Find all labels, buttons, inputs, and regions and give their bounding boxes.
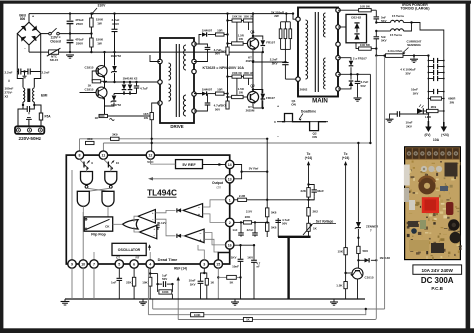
svg-text:1N4752: 1N4752 bbox=[111, 54, 122, 58]
svg-text:22K: 22K bbox=[301, 189, 307, 193]
switch 110V Closed bbox=[41, 33, 49, 35]
svg-text:10nF: 10nF bbox=[232, 265, 239, 269]
svg-text:150K 1W: 150K 1W bbox=[243, 17, 254, 19]
wire pin1 to amp1 bbox=[203, 200, 226, 207]
svg-text:2625M: 2625M bbox=[246, 109, 255, 113]
capacitor 4.7uF 50V top bbox=[194, 44, 208, 47]
wire neg rail bbox=[29, 51, 262, 53]
svg-text:15K: 15K bbox=[338, 250, 344, 254]
transformer EMI bbox=[17, 72, 23, 88]
pin 14 bbox=[226, 160, 234, 168]
svg-text:FR107: FR107 bbox=[266, 40, 275, 44]
wire bridge + to rail bbox=[28, 14, 30, 23]
wire Q1 to Q2 bbox=[252, 49, 254, 92]
svg-text:15: 15 bbox=[216, 263, 220, 267]
svg-text:3: 3 bbox=[203, 263, 205, 267]
svg-text:10: 10 bbox=[116, 161, 120, 165]
svg-text:310V: 310V bbox=[98, 4, 107, 8]
bottom wire y314.7 bbox=[148, 309, 365, 315]
ground symbol left bbox=[61, 301, 70, 303]
gate NAND2 bbox=[105, 172, 117, 185]
connector 220V-50Hz bbox=[15, 126, 44, 134]
wire T2 emitter bbox=[104, 98, 106, 116]
svg-text:Set Voltage: Set Voltage bbox=[316, 219, 334, 223]
wire rail to MAIN top bbox=[286, 14, 288, 20]
error amp 2 bbox=[185, 229, 205, 243]
pin 2 bbox=[226, 218, 234, 226]
resistor 2K2 bbox=[308, 200, 310, 208]
svg-text:6: 6 bbox=[133, 263, 135, 267]
sense wire v2 bbox=[384, 56, 386, 309]
wire deadtime comp input bbox=[149, 252, 152, 260]
svg-text:22K: 22K bbox=[245, 215, 251, 219]
svg-text:Flip Flop: Flip Flop bbox=[91, 233, 106, 237]
pin 9 bbox=[68, 260, 76, 268]
wire drive pri top bbox=[150, 55, 160, 62]
resistor 680R 2W bbox=[431, 97, 442, 100]
wire neg rail drop bbox=[261, 52, 263, 108]
5V REF box bbox=[176, 160, 203, 169]
pin 10 bbox=[79, 260, 87, 268]
wire pin7 stub bbox=[93, 252, 95, 260]
comparator deadtime bbox=[140, 225, 157, 239]
resistor 1K bottom bbox=[243, 318, 252, 322]
capacitor 10nF 1KV pin3 bbox=[203, 268, 205, 273]
svg-text:10R 5W: 10R 5W bbox=[360, 43, 370, 47]
wire T1 collector bbox=[104, 52, 106, 66]
svg-text:#: # bbox=[28, 112, 30, 116]
rectifier DS2-82 bbox=[346, 14, 367, 42]
svg-text:0: 0 bbox=[274, 120, 276, 124]
wire AC line right bbox=[40, 34, 42, 72]
svg-text:2KV: 2KV bbox=[406, 124, 412, 128]
wire mid drive bbox=[104, 77, 106, 83]
wire aux center tap bbox=[338, 73, 351, 75]
wire diode row bottom bbox=[114, 93, 137, 95]
svg-text:+: + bbox=[200, 239, 202, 243]
svg-text:(+24): (+24) bbox=[441, 133, 449, 137]
transistor C1015 bbox=[357, 260, 359, 268]
svg-text:2.5V: 2.5V bbox=[246, 209, 253, 213]
resistor 22K pin6 bbox=[133, 268, 135, 277]
gate AND1 bbox=[77, 191, 89, 206]
IC TL494C box bbox=[66, 155, 229, 264]
ground mid caps bbox=[66, 54, 74, 56]
earth to plug pin2 bbox=[28, 120, 30, 127]
svg-text:−: − bbox=[277, 135, 279, 139]
transistor C1815 top bbox=[96, 66, 107, 77]
wire toroid to +24 rail bbox=[412, 23, 444, 54]
svg-text:FR107: FR107 bbox=[266, 96, 275, 100]
capacitor 1000uF #4 bbox=[428, 78, 433, 80]
capacitor 470uF 250V bottom bbox=[69, 34, 71, 40]
capacitor 1000uF #3 bbox=[428, 72, 433, 74]
svg-text:100K: 100K bbox=[162, 290, 169, 294]
resistor 100K bottom bbox=[191, 313, 204, 317]
svg-text:1: 1 bbox=[229, 198, 231, 202]
svg-text:1K: 1K bbox=[246, 318, 250, 322]
wire 5V REF to pin 14 bbox=[203, 164, 223, 166]
capacitor 5nF 5KV bottom bbox=[375, 31, 377, 36]
resistor 150K 1W bottom bbox=[90, 34, 92, 38]
wire C1015 emitter bbox=[357, 279, 359, 299]
svg-text:9: 9 bbox=[71, 263, 73, 267]
svg-text:Dead Time: Dead Time bbox=[158, 257, 179, 262]
transistor Q2 KT2625M bbox=[247, 91, 258, 102]
pin 12 VCC bbox=[146, 151, 154, 159]
svg-text:1KV: 1KV bbox=[190, 282, 196, 286]
svg-text:806: 806 bbox=[20, 17, 26, 21]
NTC SD-15 bbox=[49, 50, 59, 54]
svg-text:16: 16 bbox=[228, 243, 232, 247]
svg-text:11: 11 bbox=[101, 154, 105, 158]
capacitor 470uF 250V top bbox=[69, 14, 71, 21]
svg-text:4.7uF: 4.7uF bbox=[140, 86, 148, 90]
wire pin9 down bbox=[71, 170, 73, 260]
output transistor pin11 bbox=[103, 159, 108, 164]
capacitor 1000uF #1 bbox=[428, 60, 433, 62]
pin 5 bbox=[115, 260, 123, 268]
svg-text:10R: 10R bbox=[217, 87, 223, 91]
wire comparators to OR bbox=[134, 216, 138, 222]
wire to ground right bbox=[171, 294, 173, 299]
wire y309 left end bbox=[152, 299, 154, 309]
svg-text:1.5K: 1.5K bbox=[336, 284, 343, 288]
svg-text:13: 13 bbox=[228, 177, 232, 181]
wire rail to Q1 bbox=[252, 14, 254, 39]
wire DS2 top bbox=[355, 10, 357, 14]
diode FR107 Q1 bbox=[253, 36, 263, 40]
svg-text:10A: 10A bbox=[433, 138, 440, 142]
svg-text:Q2: Q2 bbox=[250, 84, 254, 88]
wire MAIN to DS2 mid bbox=[338, 26, 346, 28]
svg-text:SENSING: SENSING bbox=[407, 43, 421, 47]
oscillator box bbox=[112, 243, 146, 255]
feedback diode 1 bbox=[177, 208, 181, 212]
comparator PWM bbox=[138, 210, 155, 224]
svg-text:DS2-82: DS2-82 bbox=[351, 15, 361, 19]
pin 8 bbox=[75, 151, 83, 159]
wire C1015 collector bbox=[346, 275, 352, 277]
ground symbol far right bbox=[333, 299, 335, 302]
resistor 150K 1W top bbox=[90, 14, 92, 18]
output arrow +24 bbox=[443, 122, 445, 127]
svg-text:#: # bbox=[8, 79, 10, 83]
svg-text:2KV: 2KV bbox=[272, 62, 278, 66]
svg-text:ON: ON bbox=[312, 135, 317, 139]
resistor 5K6 lower bbox=[266, 217, 268, 223]
pin 6 bbox=[130, 260, 138, 268]
capacitor 10nF pin16 wire bbox=[234, 244, 254, 246]
svg-text:Closed: Closed bbox=[50, 40, 61, 44]
diode 1N4148 bbox=[358, 259, 364, 261]
output arrow 0V bbox=[427, 121, 429, 127]
svg-text:1N4752: 1N4752 bbox=[111, 103, 122, 107]
svg-text:1W: 1W bbox=[97, 41, 102, 45]
output transistor pin8 bbox=[80, 159, 85, 164]
svg-text:2.2R: 2.2R bbox=[239, 194, 246, 198]
svg-text:12: 12 bbox=[148, 154, 152, 158]
svg-text:33nF: 33nF bbox=[317, 189, 324, 193]
svg-text:35V: 35V bbox=[405, 71, 410, 75]
svg-text:50V: 50V bbox=[282, 222, 287, 226]
svg-text:(+24): (+24) bbox=[342, 156, 350, 160]
wire T1 base down bbox=[80, 92, 97, 94]
svg-text:50V: 50V bbox=[215, 107, 220, 111]
capacitor 4.7uF 50V bottom bbox=[194, 93, 208, 95]
wire pin10 down bbox=[82, 212, 84, 260]
PCB photo bbox=[404, 147, 462, 260]
svg-text:10: 10 bbox=[81, 263, 85, 267]
svg-text:2.2nF: 2.2nF bbox=[5, 71, 13, 75]
svg-text:250V: 250V bbox=[76, 41, 84, 45]
wire pin15 to amp2 bbox=[204, 239, 218, 260]
svg-text:1nF: 1nF bbox=[111, 280, 116, 284]
svg-text:5: 5 bbox=[118, 263, 120, 267]
resistor 10R bottom bbox=[216, 92, 225, 95]
svg-text:15 Turns: 15 Turns bbox=[392, 14, 405, 18]
svg-text:50V: 50V bbox=[215, 52, 220, 56]
svg-text:1W: 1W bbox=[144, 116, 149, 120]
resistor 5K6 zener bbox=[357, 238, 359, 247]
svg-text:OSCILLATOR: OSCILLATOR bbox=[118, 248, 141, 252]
node cap midpoint earth bbox=[23, 70, 25, 72]
capacitor 4.7uF bbox=[135, 81, 137, 83]
resistor 5K6 upper bbox=[266, 208, 269, 217]
svg-text:5KV: 5KV bbox=[381, 39, 387, 43]
svg-text:DC 300A: DC 300A bbox=[421, 276, 454, 285]
svg-text:1KV: 1KV bbox=[231, 255, 237, 259]
svg-text:2W: 2W bbox=[274, 14, 279, 18]
capacitor 22nF pin2 bbox=[254, 221, 256, 223]
capacitor 1nF pin5 bbox=[118, 268, 120, 278]
pin 15 bbox=[214, 260, 222, 268]
capacitor 1uF 50V bbox=[150, 273, 157, 275]
wire osc to pins bbox=[118, 256, 120, 260]
resistor 22K feedback bbox=[308, 170, 310, 188]
border frame bbox=[0, 1, 471, 4]
output ctrl arrow bbox=[150, 178, 226, 180]
svg-text:2K9: 2K9 bbox=[431, 105, 437, 109]
wire pin16 to amp2 bbox=[204, 233, 226, 245]
bottom wire y319.5 bbox=[178, 319, 375, 321]
sense wire v1 bbox=[375, 56, 377, 319]
wire pin2 to amp1 bbox=[203, 214, 226, 223]
svg-text:1KV: 1KV bbox=[413, 91, 419, 95]
svg-text:14: 14 bbox=[228, 163, 232, 167]
wire 310V rail bbox=[29, 13, 293, 15]
pin 16 bbox=[226, 241, 234, 249]
svg-text:2: 2 bbox=[229, 221, 231, 225]
svg-text:5V Ref: 5V Ref bbox=[249, 167, 260, 171]
resistor 1K5 1W and VCC column bbox=[152, 103, 160, 113]
diode FR107 Q2 bbox=[253, 90, 263, 94]
svg-text:Output: Output bbox=[212, 181, 224, 185]
wire 0V sense down bbox=[375, 49, 377, 56]
pin 11 bbox=[99, 151, 107, 159]
wire MAIN top to 10R bbox=[338, 9, 352, 11]
pin 1 bbox=[226, 196, 234, 204]
svg-text:250V: 250V bbox=[76, 22, 84, 26]
svg-text:2K7: 2K7 bbox=[221, 50, 227, 54]
ground symbol mid bbox=[142, 299, 144, 302]
wire aux to VCC rail bbox=[369, 74, 371, 143]
svg-text:1KV: 1KV bbox=[247, 255, 253, 259]
svg-text:100K: 100K bbox=[194, 313, 201, 317]
transistor Q1 KT2625M bbox=[247, 38, 258, 49]
svg-text:10R: 10R bbox=[217, 29, 223, 33]
svg-text:3K9: 3K9 bbox=[112, 132, 118, 136]
svg-text:2K7: 2K7 bbox=[221, 104, 227, 108]
svg-text:LED: LED bbox=[425, 115, 432, 119]
resistor 2K7 top bbox=[226, 47, 229, 55]
capacitor 4.7uF 50V aux bbox=[357, 74, 359, 81]
wire gates to flipflop bbox=[82, 206, 84, 217]
ground aux bbox=[354, 97, 362, 99]
gate OR bbox=[123, 220, 139, 229]
svg-text:22K: 22K bbox=[126, 280, 132, 284]
resistor 10R top bbox=[216, 33, 225, 36]
resistor 10K pin4 bbox=[149, 268, 151, 277]
wire +24 column 2 bbox=[345, 170, 347, 248]
svg-text:ctrl: ctrl bbox=[216, 186, 221, 190]
wire to plug pin1 bbox=[18, 109, 23, 127]
flip flop bbox=[84, 217, 113, 231]
wires pins 9 10 7 to ground bbox=[71, 268, 73, 299]
resistor 1K pin3 bbox=[204, 273, 207, 278]
wire pin15 bold link to pin16 bbox=[218, 249, 229, 260]
svg-text:1W: 1W bbox=[97, 21, 102, 25]
svg-text:DRIVE: DRIVE bbox=[170, 124, 183, 129]
wire bus A bbox=[80, 138, 268, 140]
resistor 22K pin2 bbox=[234, 221, 244, 223]
svg-text:2 x FR107: 2 x FR107 bbox=[353, 57, 367, 61]
svg-text:+: + bbox=[277, 105, 279, 109]
pin 13 bbox=[226, 175, 234, 183]
svg-text:1W: 1W bbox=[239, 90, 244, 94]
svg-text:150K 1W: 150K 1W bbox=[232, 17, 243, 19]
svg-text:26002: 26002 bbox=[300, 88, 308, 92]
wire pin3 stub bbox=[198, 245, 204, 260]
diode FR107 aux bottom bbox=[338, 86, 351, 89]
bridge rectifier GBU 806 bbox=[17, 22, 40, 45]
wire divider column 5Vref bbox=[266, 139, 268, 208]
svg-text:1W: 1W bbox=[239, 37, 244, 41]
capacitor 4.7uF 50V right bbox=[267, 221, 278, 223]
wire divider column bbox=[227, 14, 229, 47]
svg-text:22nF: 22nF bbox=[247, 228, 254, 232]
wire neg rail stub zener bbox=[114, 52, 116, 65]
transformer MAIN bbox=[298, 8, 338, 97]
svg-text:4: 4 bbox=[149, 263, 151, 267]
svg-text:SD-15: SD-15 bbox=[50, 58, 59, 62]
thick bus bottom bbox=[278, 236, 311, 238]
svg-text:TOROID (LARGE): TOROID (LARGE) bbox=[400, 7, 429, 11]
resistor 2.2K pin1 bbox=[234, 199, 238, 201]
svg-text:−: − bbox=[198, 206, 200, 210]
svg-text:3.3m Ohm: 3.3m Ohm bbox=[388, 49, 403, 53]
wire bus B VCC feed bbox=[103, 142, 370, 144]
wire gate cross coupling bbox=[87, 188, 110, 191]
svg-text:7: 7 bbox=[93, 263, 95, 267]
svg-text:15 Turns: 15 Turns bbox=[390, 33, 403, 37]
pin 3 bbox=[200, 260, 208, 268]
resistor 15K bbox=[344, 248, 347, 255]
error amp 1 bbox=[183, 204, 203, 218]
svg-text:8: 8 bbox=[79, 154, 81, 158]
wire bridge - down bbox=[28, 45, 30, 52]
svg-text:+: + bbox=[198, 213, 200, 217]
svg-text:RT: RT bbox=[135, 255, 139, 259]
svg-text:C1015: C1015 bbox=[365, 275, 374, 279]
transistor C1815 bottom bbox=[96, 87, 107, 98]
svg-text:ZENNER: ZENNER bbox=[366, 225, 379, 229]
deadtime input arrow bbox=[149, 246, 151, 251]
resistor 2K7 bottom bbox=[226, 101, 229, 109]
svg-text:CT: CT bbox=[116, 255, 120, 259]
svg-text:10K: 10K bbox=[142, 280, 148, 284]
svg-text:CK: CK bbox=[105, 225, 110, 229]
zener diode branch bbox=[357, 143, 359, 222]
wire to MAIN bottom bbox=[285, 78, 298, 80]
gate NAND1 bbox=[81, 172, 93, 185]
capacitor 2.2uF 400V bbox=[114, 14, 116, 29]
pin 4 bbox=[146, 260, 154, 268]
svg-text:10A 24V 240W: 10A 24V 240W bbox=[421, 268, 453, 273]
svg-text:5V REF: 5V REF bbox=[182, 163, 196, 167]
svg-text:−: − bbox=[200, 232, 202, 236]
svg-text:ON: ON bbox=[291, 102, 296, 106]
svg-text:5K6: 5K6 bbox=[271, 226, 277, 230]
svg-text:TL494C: TL494C bbox=[147, 188, 177, 197]
fuse F5A bbox=[34, 105, 41, 113]
svg-text:KT2625 = NPN 400V 10A: KT2625 = NPN 400V 10A bbox=[203, 66, 245, 70]
resistor 5K box bbox=[218, 276, 226, 278]
svg-text:2K2: 2K2 bbox=[313, 209, 319, 213]
resistor 1K T2 bbox=[99, 114, 108, 117]
pin 7 bbox=[90, 260, 98, 268]
svg-text:5K6: 5K6 bbox=[271, 210, 277, 214]
svg-text:1nF: 1nF bbox=[232, 228, 237, 232]
wire DS2 bottom to 10R bbox=[356, 43, 359, 49]
svg-text:50V: 50V bbox=[361, 84, 366, 88]
svg-text:REF (14): REF (14) bbox=[174, 266, 187, 270]
gate AND2 bbox=[102, 191, 114, 206]
svg-text:2.2nF: 2.2nF bbox=[42, 71, 50, 75]
svg-text:P.C.B: P.C.B bbox=[431, 286, 443, 291]
resistor 1.5K bbox=[344, 282, 347, 289]
svg-text:50V: 50V bbox=[162, 277, 167, 281]
capacitor 33nF feedback bbox=[309, 185, 315, 190]
svg-text:C1815: C1815 bbox=[84, 88, 93, 92]
ground bus bbox=[65, 298, 365, 300]
wire 5V ref rail bbox=[234, 165, 242, 179]
capacitor under EMI bbox=[23, 105, 27, 109]
svg-text:Deadtime: Deadtime bbox=[301, 109, 316, 113]
svg-text:MAIN: MAIN bbox=[312, 97, 328, 104]
wire mid node to snubber bbox=[253, 61, 285, 63]
svg-text:2W: 2W bbox=[450, 100, 455, 104]
svg-text:1N4007: 1N4007 bbox=[202, 29, 213, 33]
svg-text:nF: nF bbox=[257, 265, 261, 269]
feedback diode 2 bbox=[177, 234, 181, 238]
svg-text:3K9: 3K9 bbox=[87, 137, 93, 141]
caption 10A 24V 240W bbox=[413, 265, 462, 274]
ground symbol right mid bbox=[234, 299, 236, 302]
svg-text:(0V): (0V) bbox=[425, 133, 431, 137]
svg-text:(+24): (+24) bbox=[305, 156, 313, 160]
wire AC line left bbox=[16, 34, 18, 72]
